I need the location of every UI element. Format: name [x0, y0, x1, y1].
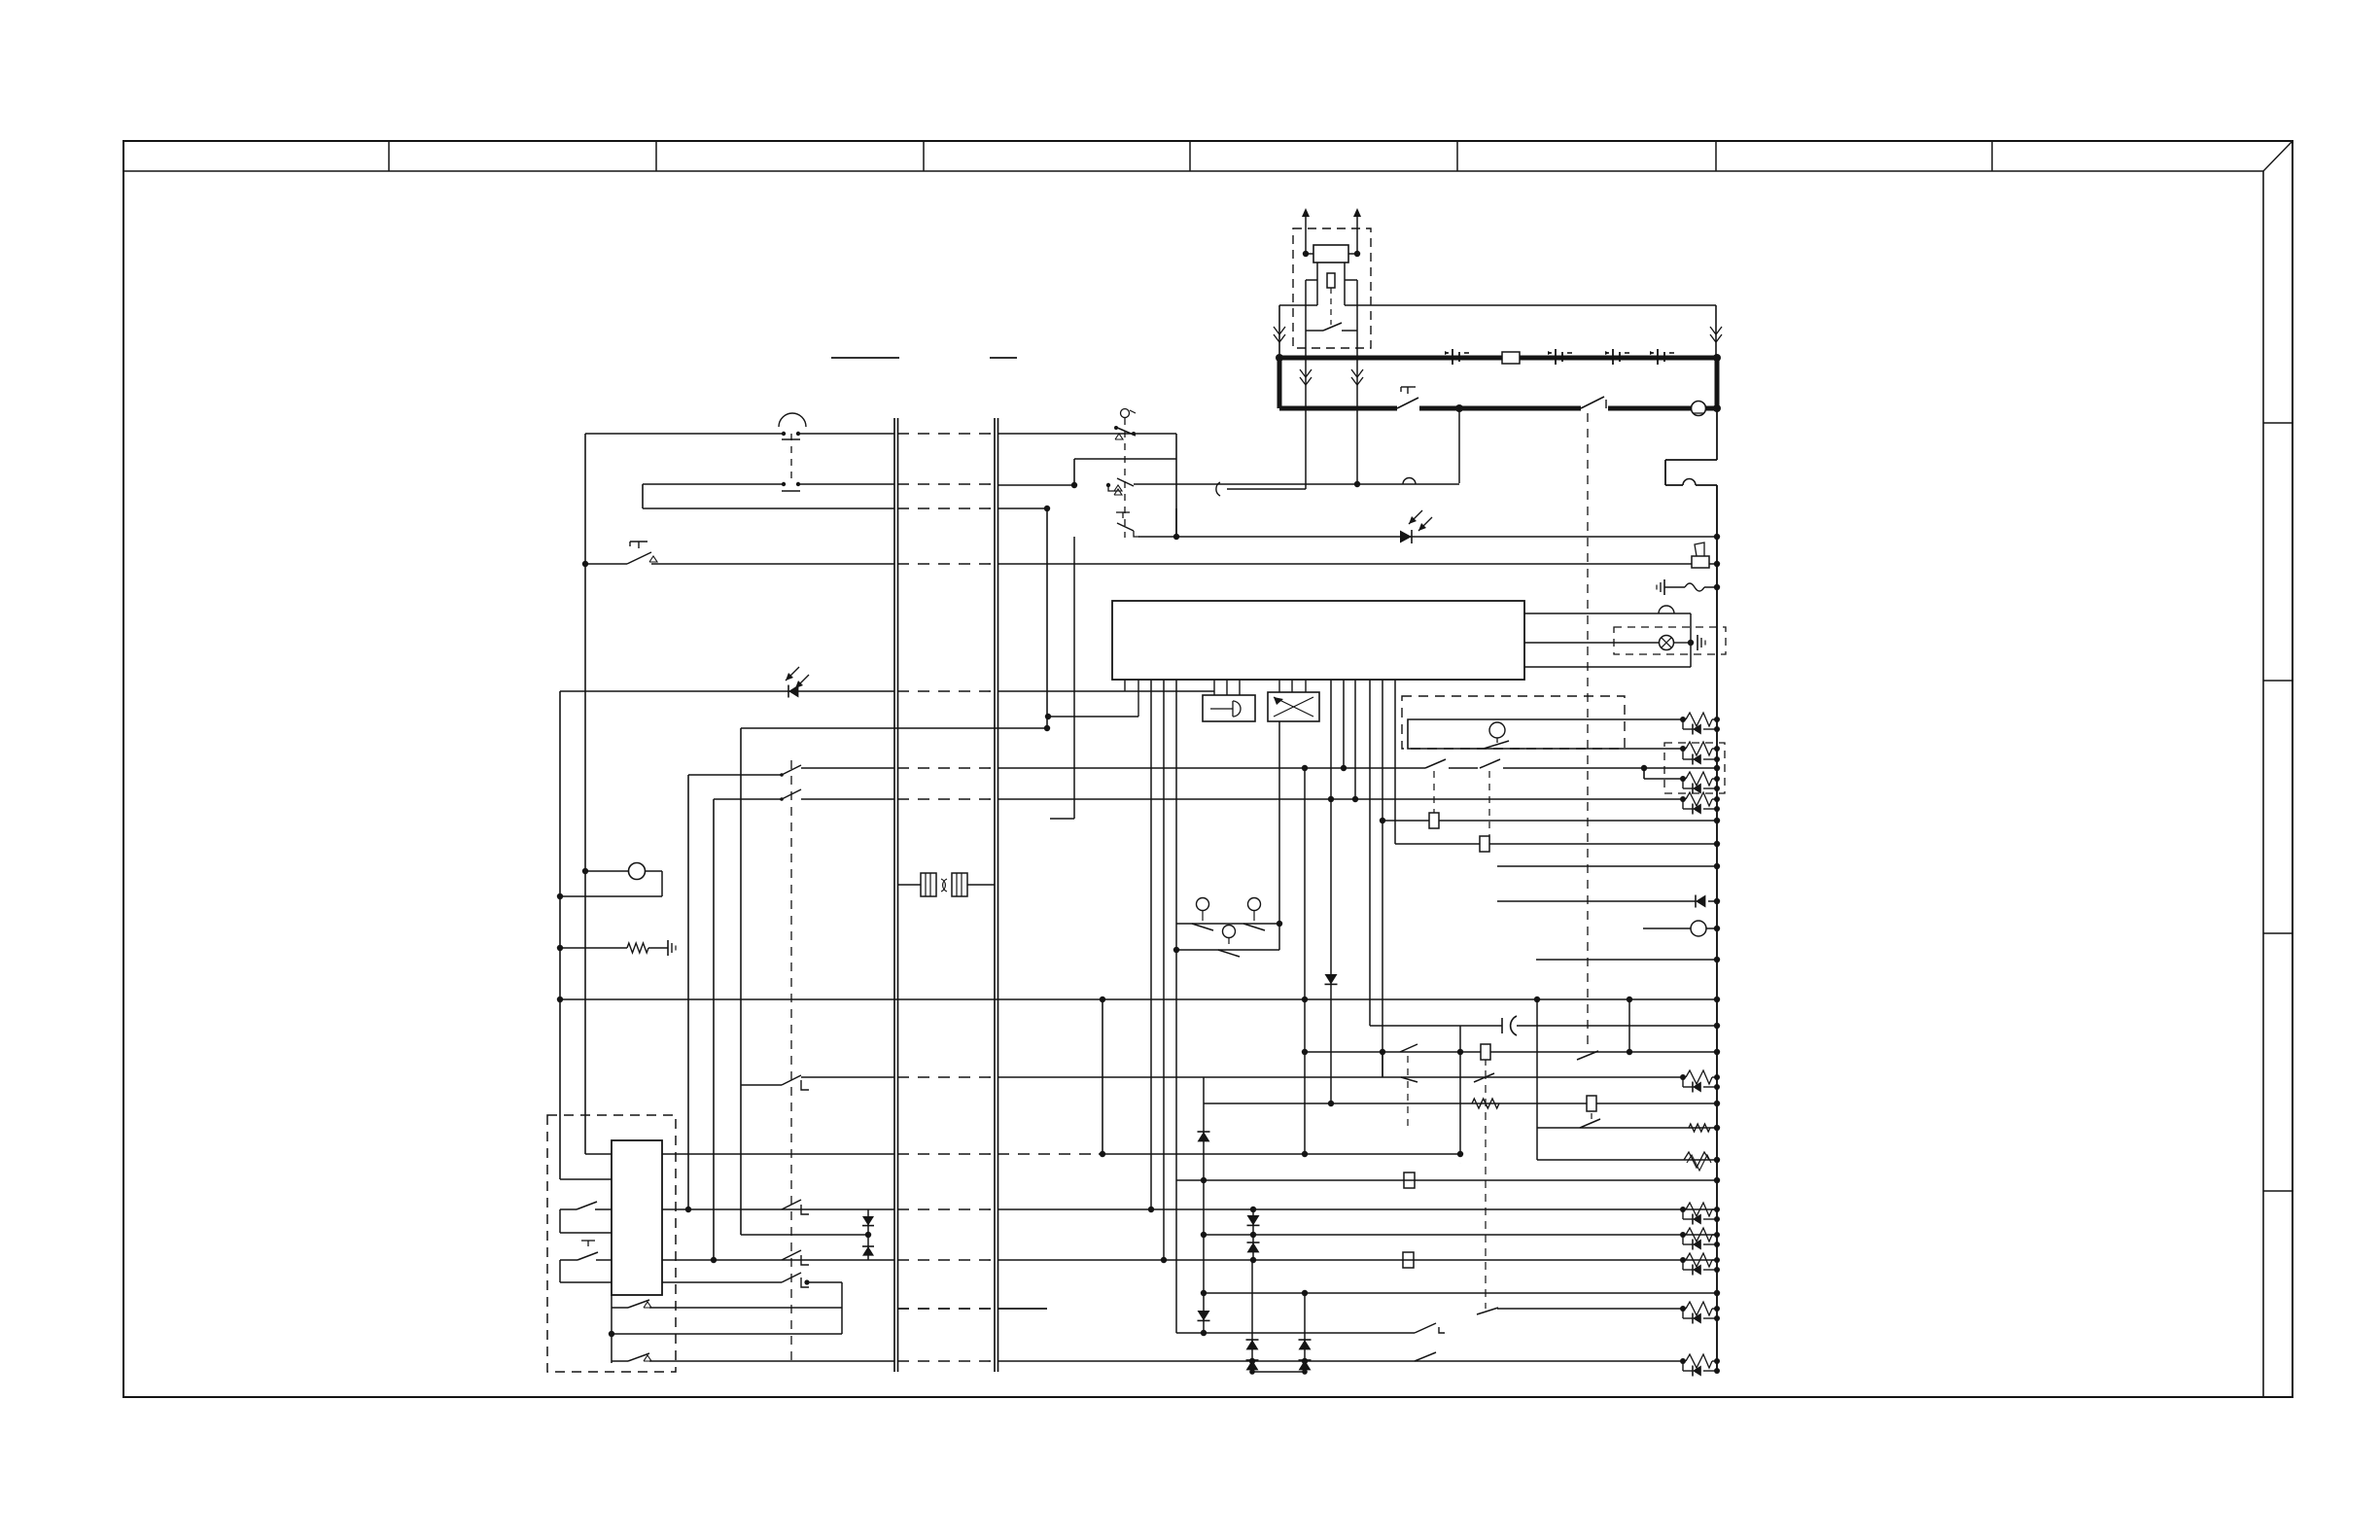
mechanical link dashed from bold switch: [1587, 413, 1589, 1048]
junction row790 b: [1341, 765, 1347, 771]
pair9 feed blade: [1477, 1308, 1683, 1314]
diode col x1288 lower: [1246, 1260, 1259, 1375]
reference dash 2: [990, 357, 1017, 359]
switch blade row 1108 b: [1474, 1073, 1494, 1082]
rail junction row891: [1714, 863, 1720, 869]
relay coil inline row 1082: [1481, 1044, 1490, 1060]
relay feed wire right: [1345, 304, 1716, 306]
ECU bottom stubs group A: [1125, 680, 1138, 717]
wire row 1082: [1305, 1051, 1717, 1053]
wire row 1319 to x866: [804, 1279, 842, 1334]
vertical x1316 from box2: [1278, 721, 1280, 924]
title block divider x=1765: [1715, 141, 1717, 171]
wire row 523 bus crossing dashed: [897, 507, 995, 509]
row 1108 mid: [997, 1076, 1382, 1078]
fuel gauge circle: [560, 863, 662, 897]
wire row 1411: [1252, 1371, 1305, 1373]
vertical x1342: [1302, 768, 1308, 1157]
relay coil left lead: [1306, 253, 1313, 255]
wire row 498 bus crossing dashed: [897, 483, 995, 485]
junction row 1028 left: [557, 997, 563, 1002]
wire row 1055 capacitor: [1370, 1016, 1717, 1035]
wire drop x661: [642, 484, 644, 508]
rail ground squiggle row 604: [1657, 579, 1720, 595]
wire row 1160: [1537, 1119, 1717, 1128]
wire row 1244 out: [662, 1207, 894, 1212]
resistor to ground row 975: [560, 940, 676, 956]
rail junction row1108: [1716, 1076, 1718, 1078]
vertical x708: [687, 775, 689, 1209]
junction gauge feed: [582, 868, 588, 874]
wire drop x1077: [1046, 508, 1048, 728]
title block divider x=2049: [1991, 141, 1993, 171]
wire row 1193: [1537, 1159, 1717, 1161]
junction row1082 x1422: [1380, 1049, 1385, 1055]
vertical x602: [584, 434, 586, 1154]
wire row 552: [1138, 534, 1720, 540]
wire step row790 to pair3: [1644, 768, 1683, 779]
bold feed bus right drop: [1715, 358, 1720, 408]
unit row 1372: [609, 1331, 842, 1337]
horn wire to rail: [1709, 561, 1720, 567]
wire row 503 with connector: [1216, 482, 1306, 496]
harness bus 2 (double line): [995, 418, 998, 1372]
sheet border frame: [123, 141, 2292, 1397]
wire row 790 right: [997, 767, 1425, 769]
resistor-diode pair P6: [1680, 1203, 1720, 1225]
fuse on bold bus: [1502, 352, 1520, 364]
right margin zone tick y=435: [2263, 422, 2292, 424]
diode col x1342 lower: [1299, 1293, 1312, 1375]
junction row1055-x1502 corner: [1459, 1162, 1461, 1164]
relay feed drop right chevrons: [1710, 305, 1722, 356]
mechanical link dashed x1448: [1407, 1056, 1409, 1126]
push switch on bold bottom line: [1397, 387, 1418, 408]
wire row 822 right: [997, 798, 1683, 800]
unit switch loop 1: [560, 1202, 612, 1233]
wire drop from bold junction: [1458, 408, 1460, 483]
resistor-diode pair P8: [1680, 1253, 1720, 1276]
vertical x1502 short: [1459, 1026, 1461, 1052]
reference dash 1: [831, 357, 899, 359]
row 1187 bus crossing dashed: [897, 1153, 995, 1155]
stack blade row 446: [1114, 426, 1136, 439]
wire row 1400 bus crossing dashed: [0, 0, 1, 1]
bottom unit block: [612, 1140, 662, 1295]
stack blade row 552b: [1116, 512, 1139, 537]
wire row 711 right: [997, 690, 1214, 692]
vertical stub x1184: [1150, 680, 1152, 1209]
bold feed bus left drop: [1277, 358, 1282, 408]
title block divider x=1224: [1189, 141, 1191, 171]
LED indicator on row 552: [1400, 510, 1432, 543]
wire row 790: [801, 767, 894, 769]
wire row 1270 left: [741, 1234, 868, 1236]
thermo switch 2: [1243, 898, 1265, 931]
relay contact blade row 790 #1: [1425, 759, 1478, 768]
vertical x1134: [1100, 997, 1105, 1154]
vertical stub x1422: [1382, 680, 1383, 1077]
changeover row 1108 left: [741, 1075, 809, 1090]
unit switch loop 2 push: [560, 1241, 612, 1282]
vertical x1210 long: [1175, 680, 1177, 1333]
vertical x576: [559, 691, 561, 1179]
ECU right stub y631: [1524, 613, 1691, 667]
relay unit dashed enclosure: [1293, 228, 1371, 348]
relay feed wire left: [1279, 304, 1317, 306]
relay coil link row1082: [1485, 1060, 1487, 1071]
sensor unit dashed box: [1402, 696, 1625, 749]
resistor-diode pair P5: [1680, 1070, 1720, 1093]
relay coil right lead: [1348, 253, 1357, 255]
stack blade row 499 triangle: [1114, 485, 1122, 491]
right margin zone tick y=700: [2263, 680, 2292, 682]
changeover blade row 790: [780, 765, 801, 777]
relay load pin right: [1351, 331, 1363, 484]
junction resistor row: [557, 945, 563, 951]
wire row 1330: [1201, 1290, 1717, 1296]
bus-to-bus connector row 910: [897, 873, 995, 896]
junction row1082 x1502: [1457, 1049, 1463, 1055]
switch blade row 1400: [1415, 1352, 1436, 1361]
title block divider x=400: [388, 141, 390, 171]
wire row 987: [1536, 957, 1720, 962]
harness bus 1 (double line): [894, 418, 898, 1372]
rail junction row1330: [1714, 1290, 1720, 1296]
wire row 1028 long: [560, 998, 1717, 1000]
junction bold top-left: [1276, 354, 1283, 362]
lamp ground: [1697, 635, 1705, 650]
title block divider x=675: [655, 141, 657, 171]
ignition switch blade row 499: [1106, 478, 1134, 495]
right margin zone tick y=960: [2263, 932, 2292, 934]
relay link from coil row1108: [1485, 1071, 1487, 1309]
relay link dashed #2: [1488, 771, 1490, 842]
wire row 580 left: [585, 563, 627, 565]
junction row1187 x1502: [1457, 1151, 1463, 1157]
relay internal tie left: [1306, 280, 1317, 331]
wire row 1108 left of bus: [801, 1076, 894, 1078]
relay coil box: [1313, 245, 1348, 262]
vertical x1422 to 1108 corner: [1382, 1052, 1383, 1077]
wire row 1135: [1204, 1096, 1717, 1111]
resistor-diode pair P7: [1680, 1228, 1720, 1250]
relay internal leg right: [1344, 262, 1346, 305]
wire row 580 right: [997, 563, 1692, 565]
horn symbol: [1692, 542, 1709, 568]
wire row 523 right: [997, 507, 1047, 509]
relay internal leg left: [1316, 262, 1318, 305]
relay coil2 link: [1591, 1113, 1592, 1121]
right margin zone tick y=1225: [2263, 1190, 2292, 1192]
lamp row 955: [1643, 921, 1720, 936]
switch 2 on bold bottom line: [1581, 397, 1606, 408]
unit lower switch row 1345: [612, 1295, 842, 1363]
unit feed from x602: [585, 1153, 612, 1155]
wire row 472: [1074, 458, 1176, 460]
wire row 1187: [1099, 1151, 1460, 1157]
wire row 749: [741, 725, 1050, 731]
junction row822 a: [1328, 796, 1334, 802]
junction row 499: [1071, 482, 1077, 488]
wire row 498 to bus: [798, 483, 894, 485]
lamp unit dashed box: [1614, 627, 1726, 654]
LED on row 711: [786, 667, 809, 698]
relay feed drop left chevrons: [1274, 305, 1285, 356]
wire row 737: [1045, 714, 1138, 719]
unit bottom switch row 1400: [628, 1353, 651, 1361]
rail junction row1214: [1714, 1177, 1720, 1183]
row 1400 from unit: [612, 1360, 668, 1362]
vertical x734: [713, 799, 715, 1260]
relay coil inline row 1214: [1404, 1172, 1415, 1188]
wire corner drop x1210: [1175, 434, 1177, 537]
row 1244 bus crossing dashed: [897, 1208, 995, 1210]
row 1346 bus crossing dashed: [897, 1308, 1047, 1310]
wire row 842 stub: [1050, 818, 1074, 820]
wire row 580 bus crossing dashed: [897, 563, 995, 565]
row1400 dots: [1249, 1358, 1308, 1364]
wire row 950: [1176, 921, 1282, 927]
warning lamp circle-X: [1660, 636, 1674, 650]
changeover blade row 822: [780, 789, 801, 801]
relay armature dashed link: [1330, 288, 1332, 325]
wire row 446 left: [585, 433, 784, 435]
junction row 552: [1173, 534, 1179, 540]
relay internal tie right: [1345, 280, 1357, 331]
wire row 977: [1173, 924, 1279, 953]
wire row 1187 out: [662, 1153, 894, 1155]
relay load pin left: [1300, 331, 1312, 489]
row 1108 bus crossing dashed: [897, 1076, 995, 1078]
wire row 446 to bus: [798, 433, 894, 435]
junction row1028 x1342: [1302, 997, 1308, 1002]
diode column x1289: [1247, 1209, 1260, 1260]
ECU right stub y686: [1524, 666, 1691, 668]
wire drop x1105: [1073, 459, 1075, 485]
wire row 1399 long: [668, 1360, 1683, 1362]
diode row 927: [1497, 895, 1720, 908]
switch blade row 1082 left: [1400, 1044, 1417, 1052]
switch blade row 1082 right: [1577, 1051, 1598, 1060]
inline connector on bold bus 1: [1445, 349, 1469, 365]
relay pin up-left: [1302, 208, 1310, 254]
vertical stub x1382: [1343, 680, 1345, 768]
title block divider x=950: [923, 141, 925, 171]
inline connector on bold bus 3: [1605, 349, 1629, 365]
junction row 523: [1044, 506, 1050, 511]
wire row 1371: [1176, 1323, 1445, 1336]
wire row 790 bus crossing dashed: [897, 767, 995, 769]
resistor row 1160b: [0, 0, 1, 1]
wire row 498 right: [997, 484, 1074, 486]
box below ECU 1 (illumination): [1203, 695, 1255, 721]
long dashed link x814: [790, 760, 792, 1361]
key symbol: [1121, 409, 1137, 418]
rail junction row844: [1714, 818, 1720, 823]
inline connector on bold bus 4: [1650, 349, 1674, 365]
vertical stub x1197: [1163, 680, 1165, 1260]
resistor-diode pair P4: [1680, 792, 1720, 815]
wire row 1270: [1201, 1232, 1717, 1238]
unit feed from x576: [560, 1178, 612, 1180]
inline connector on bold bus 2: [1548, 349, 1572, 365]
resistor-diode pair P2: [1680, 742, 1720, 765]
changeover row 1244: [782, 1200, 809, 1214]
motor symbol on bold line: [1692, 402, 1706, 416]
wire drop x1210b: [1175, 508, 1177, 537]
vertical x1502 mid: [1459, 1052, 1461, 1154]
small resistor row 1160 inline: [1689, 1124, 1710, 1132]
lamp bump row 498: [1403, 478, 1416, 485]
box below ECU 2 (flasher): [1268, 692, 1319, 721]
wire row 446 bus crossing dashed: [897, 433, 995, 435]
wire row 822 common: [714, 798, 782, 800]
diode pair column x893: [862, 1209, 874, 1260]
row 1187 right dashed: [997, 1153, 1099, 1155]
box1 stubs: [1214, 680, 1240, 695]
title block divider x=1499: [1456, 141, 1458, 171]
junction x1581 row1028: [1534, 997, 1540, 1002]
thermistor on row 1193: [1684, 1152, 1711, 1171]
right common rail: [1665, 408, 1717, 1371]
vertical stub x1408 to cap row: [1369, 680, 1371, 1026]
bold feed bus top: [1279, 356, 1717, 361]
ECU right stub y654: [1524, 642, 1659, 644]
wire row 1319 out: [662, 1281, 782, 1283]
junction gauge return: [557, 893, 563, 899]
rail junction row1028: [1714, 997, 1720, 1002]
row 1296 right: [997, 1257, 1717, 1263]
wire row 822 bus crossing dashed: [897, 798, 995, 800]
wire row 711 bus crossing dashed: [897, 690, 995, 692]
thermo switch 3: [1218, 926, 1240, 958]
fuel sender symbol: [1470, 722, 1524, 749]
vertical x1676: [1627, 997, 1632, 1055]
junction bold top-right: [1713, 354, 1721, 362]
vertical stub x1369 with diode: [1325, 680, 1338, 1106]
bottom relay unit dashed box: [547, 1115, 676, 1372]
inline connector pair row446/498: [779, 413, 806, 491]
relay contact row: [1306, 323, 1357, 331]
vertical x1105: [1073, 537, 1075, 819]
row 1400 bus crossing: [897, 1360, 995, 1362]
wire row 580 to bus: [651, 563, 894, 565]
thermo switch 1: [1192, 898, 1213, 931]
row 1244 right: [997, 1207, 1717, 1212]
wire row 891: [1497, 865, 1717, 867]
dashed box around pair2: [1664, 743, 1725, 793]
sensor unit inner frame: [1408, 719, 1683, 749]
relay link dashed #1: [1433, 771, 1435, 819]
resistor-diode pair P3: [1680, 772, 1720, 794]
resistor-diode pair P9: [1680, 1302, 1720, 1324]
wire row 1108: [1382, 1076, 1683, 1078]
wire drop x762 mid: [740, 728, 742, 1085]
diode column x1238: [1198, 1077, 1210, 1333]
vertical x1581: [1536, 999, 1538, 1160]
key switch stack dashed link: [1124, 418, 1126, 538]
row 1296 bus crossing dashed: [897, 1259, 995, 1261]
wire row 822: [801, 798, 894, 800]
junction bold bottom-right: [1713, 404, 1721, 412]
rail junction row1135: [1714, 1101, 1720, 1106]
wire row 790 common: [688, 774, 782, 776]
vertical x762 lower: [740, 1085, 742, 1235]
relay coil on row 844: [1382, 813, 1717, 828]
lamp wire and junction: [1674, 640, 1694, 646]
vertical stub x1435: [1394, 680, 1396, 844]
bold feed bus bottom: [1279, 406, 1717, 411]
pair1 feed: [1682, 718, 1684, 720]
box2 stubs: [1279, 680, 1306, 692]
wire row 1214: [1176, 1177, 1717, 1183]
junction row822 b: [1352, 796, 1358, 802]
wire row 1296 out: [662, 1257, 894, 1263]
resistor-diode pair P1: [1680, 713, 1720, 735]
relay coil inline row 1296: [1403, 1252, 1414, 1268]
changeover row 1319: [782, 1273, 809, 1287]
switch blade row 1108 a: [1401, 1077, 1417, 1082]
push button switch row 580: [627, 542, 657, 564]
rail junction row1055: [1714, 1023, 1720, 1029]
relay contact blade row 790 #2: [1480, 759, 1717, 771]
junction relay coil left: [1303, 251, 1309, 257]
rail junction row1160: [1714, 1125, 1720, 1131]
wire row 498 left: [643, 483, 784, 485]
rail junction row1193: [1714, 1157, 1720, 1163]
vertical stub x1394: [1354, 680, 1356, 799]
junction row790 rail: [1714, 765, 1720, 771]
junction x1422 row844: [1380, 818, 1385, 823]
control unit block: [1112, 601, 1524, 680]
relay armature small box: [1327, 273, 1335, 288]
junction row790 a: [1302, 765, 1308, 771]
wire row 711 LED circuit: [560, 690, 894, 692]
relay coil on row 868: [1395, 836, 1717, 852]
junction bold bottom: [1455, 404, 1463, 412]
wire row 446 right: [997, 433, 1176, 435]
resistor-diode pair P10: [1680, 1354, 1720, 1377]
wire row 523: [643, 507, 894, 509]
junction row 580: [582, 561, 588, 567]
changeover row 1296: [782, 1250, 809, 1265]
rail junction row1082: [1714, 1049, 1720, 1055]
rail junction row868: [1714, 841, 1720, 847]
relay pin up-right: [1353, 208, 1361, 254]
bulb unit dome: [1659, 606, 1674, 613]
junction relay coil right: [1354, 251, 1360, 257]
wire row 498 right: [1134, 481, 1459, 487]
